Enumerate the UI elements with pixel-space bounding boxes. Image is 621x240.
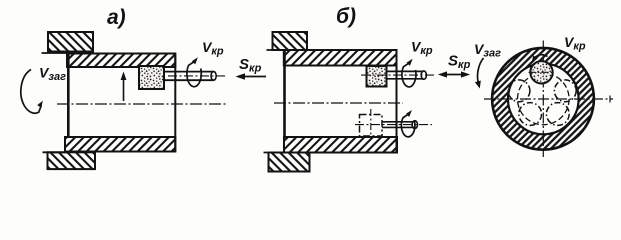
label b) <box>336 5 356 28</box>
label Vkr (fig a) <box>202 39 224 58</box>
workpiece rotation arrow (end view) <box>475 58 484 89</box>
svg-text:б): б) <box>336 5 356 28</box>
workpiece bottom wall (fig b) <box>284 137 397 153</box>
feed arrow left (between a and b) <box>236 73 267 79</box>
svg-text:Vкр: Vкр <box>202 39 224 58</box>
svg-text:Vзаг: Vзаг <box>39 65 66 84</box>
spindle centerline top (fig b) <box>361 74 436 76</box>
chuck face line bottom (fig b) <box>264 152 286 154</box>
phantom wheel position right (end view) <box>554 80 576 102</box>
label Vkr (end view) <box>564 34 586 53</box>
crosshair end tick (end view) <box>609 96 611 103</box>
label a) <box>107 6 126 29</box>
vertical crosshair centerline (end view) <box>542 41 544 158</box>
workpiece rotation arrow (fig a) <box>21 70 43 114</box>
svg-text:Sкр: Sкр <box>239 56 262 75</box>
axis centerline (fig a) <box>57 103 227 105</box>
phantom wheel position lower-right (end view) <box>546 103 569 126</box>
chuck face line top (fig b) <box>267 49 287 51</box>
svg-text:Vкр: Vкр <box>411 39 433 58</box>
phantom wheel position left (end view) <box>508 80 530 102</box>
label Vzag (fig a) <box>39 65 66 84</box>
chuck jaw top (fig a) <box>48 32 93 52</box>
svg-text:а): а) <box>107 6 126 29</box>
workpiece bore circle (end view) <box>508 64 579 135</box>
phantom spindle centerline (fig b) <box>355 124 432 126</box>
phantom wheel vertical centerline (fig b) <box>370 109 372 140</box>
grinding wheel (fig a) <box>139 66 164 89</box>
grinding wheel top (fig b) <box>367 66 387 87</box>
workpiece bottom wall (fig a) <box>65 137 175 152</box>
wheel rotation arrow top (fig b) <box>402 59 416 87</box>
spindle centerline (fig a) <box>168 75 227 77</box>
wheel rotation arrow (end view) <box>532 55 548 62</box>
chuck jaw bottom (fig b) <box>269 153 310 172</box>
chuck jaw bottom (fig a) <box>48 152 96 169</box>
workpiece left end face (fig b) <box>283 50 286 137</box>
workpiece right end face (fig b) <box>396 50 398 153</box>
phantom wheel position lower-left (end view) <box>519 103 542 126</box>
chuck jaw top (fig b) <box>273 32 308 50</box>
grinding wheel at top position (end view) <box>530 61 552 83</box>
spindle shaft top (fig b) <box>387 71 427 79</box>
wheel rotation arrow (fig a) <box>187 57 201 86</box>
svg-text:Vкр: Vкр <box>564 34 586 53</box>
spindle shaft (fig a) <box>164 72 216 81</box>
workpiece right end face (fig a) <box>174 54 176 152</box>
label Skr (between a and b) <box>239 56 262 75</box>
workpiece top wall (fig a) <box>67 54 175 68</box>
axis centerline (fig b) <box>274 102 403 104</box>
workpiece ring hatching (end view) <box>492 48 594 150</box>
phantom wheel bottom (fig b) <box>360 115 383 137</box>
longitudinal feed double arrow <box>438 71 470 77</box>
wheel horizontal center mark (end view) <box>529 71 555 73</box>
workpiece outer circle (end view) <box>492 48 594 150</box>
workpiece left end face (fig a) <box>67 54 70 138</box>
label Vzag (end view) <box>474 41 501 60</box>
label Vkr (fig b) <box>411 39 433 58</box>
label Skr (between b and end view) <box>448 53 471 72</box>
planetary pitch circle (end view) <box>518 73 570 125</box>
horizontal crosshair centerline (end view) <box>484 98 613 100</box>
svg-text:Vзаг: Vзаг <box>474 41 501 60</box>
workpiece top wall (fig b) <box>284 50 397 66</box>
svg-text:Sкр: Sкр <box>448 53 471 72</box>
chuck face line bottom (fig a) <box>43 151 68 153</box>
wheel rotation arrow bottom (fig b) <box>401 110 415 137</box>
chuck face line top (fig a) <box>42 52 69 54</box>
phantom spindle shaft bottom (fig b) <box>382 121 417 129</box>
radial feed arrow (fig a) <box>121 72 127 102</box>
